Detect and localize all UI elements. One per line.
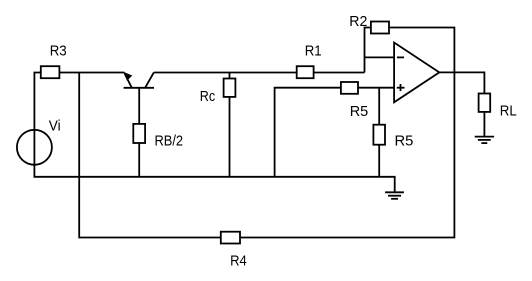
svg-text:RB/2: RB/2	[155, 133, 184, 150]
resistor R5	[341, 82, 368, 120]
transistor Q1	[124, 73, 154, 124]
svg-text:R2: R2	[349, 13, 367, 30]
resistor R5	[373, 125, 413, 150]
wire	[378, 88, 380, 177]
svg-text:R5: R5	[350, 103, 369, 120]
svg-text:R3: R3	[50, 43, 67, 60]
wire	[439, 72, 484, 93]
svg-text:RL: RL	[500, 103, 517, 120]
resistor Rc	[200, 79, 236, 105]
resistor R2	[349, 13, 389, 34]
source Vi	[17, 117, 61, 165]
resistor R4	[221, 232, 247, 270]
wire	[365, 56, 395, 58]
svg-text:R5: R5	[395, 132, 414, 149]
resistor RL	[479, 94, 517, 120]
resistor R1	[297, 43, 322, 79]
wire	[229, 73, 231, 177]
wire	[34, 73, 379, 177]
ground	[379, 177, 404, 199]
svg-text:R1: R1	[305, 43, 322, 60]
svg-text:Rc: Rc	[200, 88, 216, 105]
ground	[475, 112, 494, 143]
wire	[154, 72, 365, 74]
wire	[275, 88, 395, 177]
wire	[79, 28, 454, 238]
resistor R3	[41, 43, 67, 79]
wire	[138, 143, 140, 177]
resistor RB/2	[133, 124, 183, 150]
svg-text:Vi: Vi	[49, 117, 61, 134]
op-amp U1	[394, 43, 439, 103]
svg-text:R4: R4	[230, 253, 247, 270]
